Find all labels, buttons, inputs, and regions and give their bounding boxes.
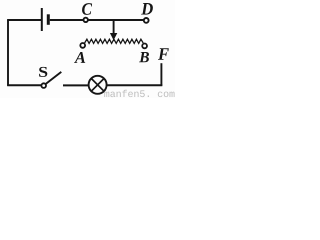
wire: top-left horizontal to battery	[7, 19, 41, 21]
wire: battery to terminal C	[50, 19, 84, 21]
terminal A circle	[80, 43, 85, 48]
label F	[158, 48, 169, 59]
terminal B circle	[142, 44, 147, 49]
wiper stem from top wire	[113, 20, 115, 34]
terminal C circle	[84, 18, 88, 22]
rheostat zigzag resistance wire	[85, 39, 144, 43]
label A	[74, 52, 85, 63]
switch blade (open)	[46, 72, 62, 84]
wire: bottom-left to switch	[7, 84, 41, 86]
terminal D circle	[144, 18, 149, 23]
label B	[139, 52, 149, 62]
wiper arrowhead	[110, 33, 117, 40]
watermark manfen5.com	[104, 90, 174, 97]
wire: switch to lamp	[63, 84, 89, 86]
wire: terminal C to terminal D	[87, 19, 144, 21]
label S	[39, 67, 47, 77]
battery long plate	[41, 8, 43, 31]
wire: left vertical side	[7, 20, 9, 86]
lamp circle	[89, 76, 107, 94]
battery short plate	[47, 14, 50, 24]
lamp X diagonal 1	[91, 79, 104, 92]
lamp X diagonal 2	[91, 79, 104, 92]
wire: lamp to bottom-right corner	[107, 84, 163, 86]
label C	[82, 3, 92, 15]
wire: right vertical up to F	[160, 63, 162, 86]
switch contact circle	[41, 83, 46, 88]
label D	[141, 3, 153, 15]
